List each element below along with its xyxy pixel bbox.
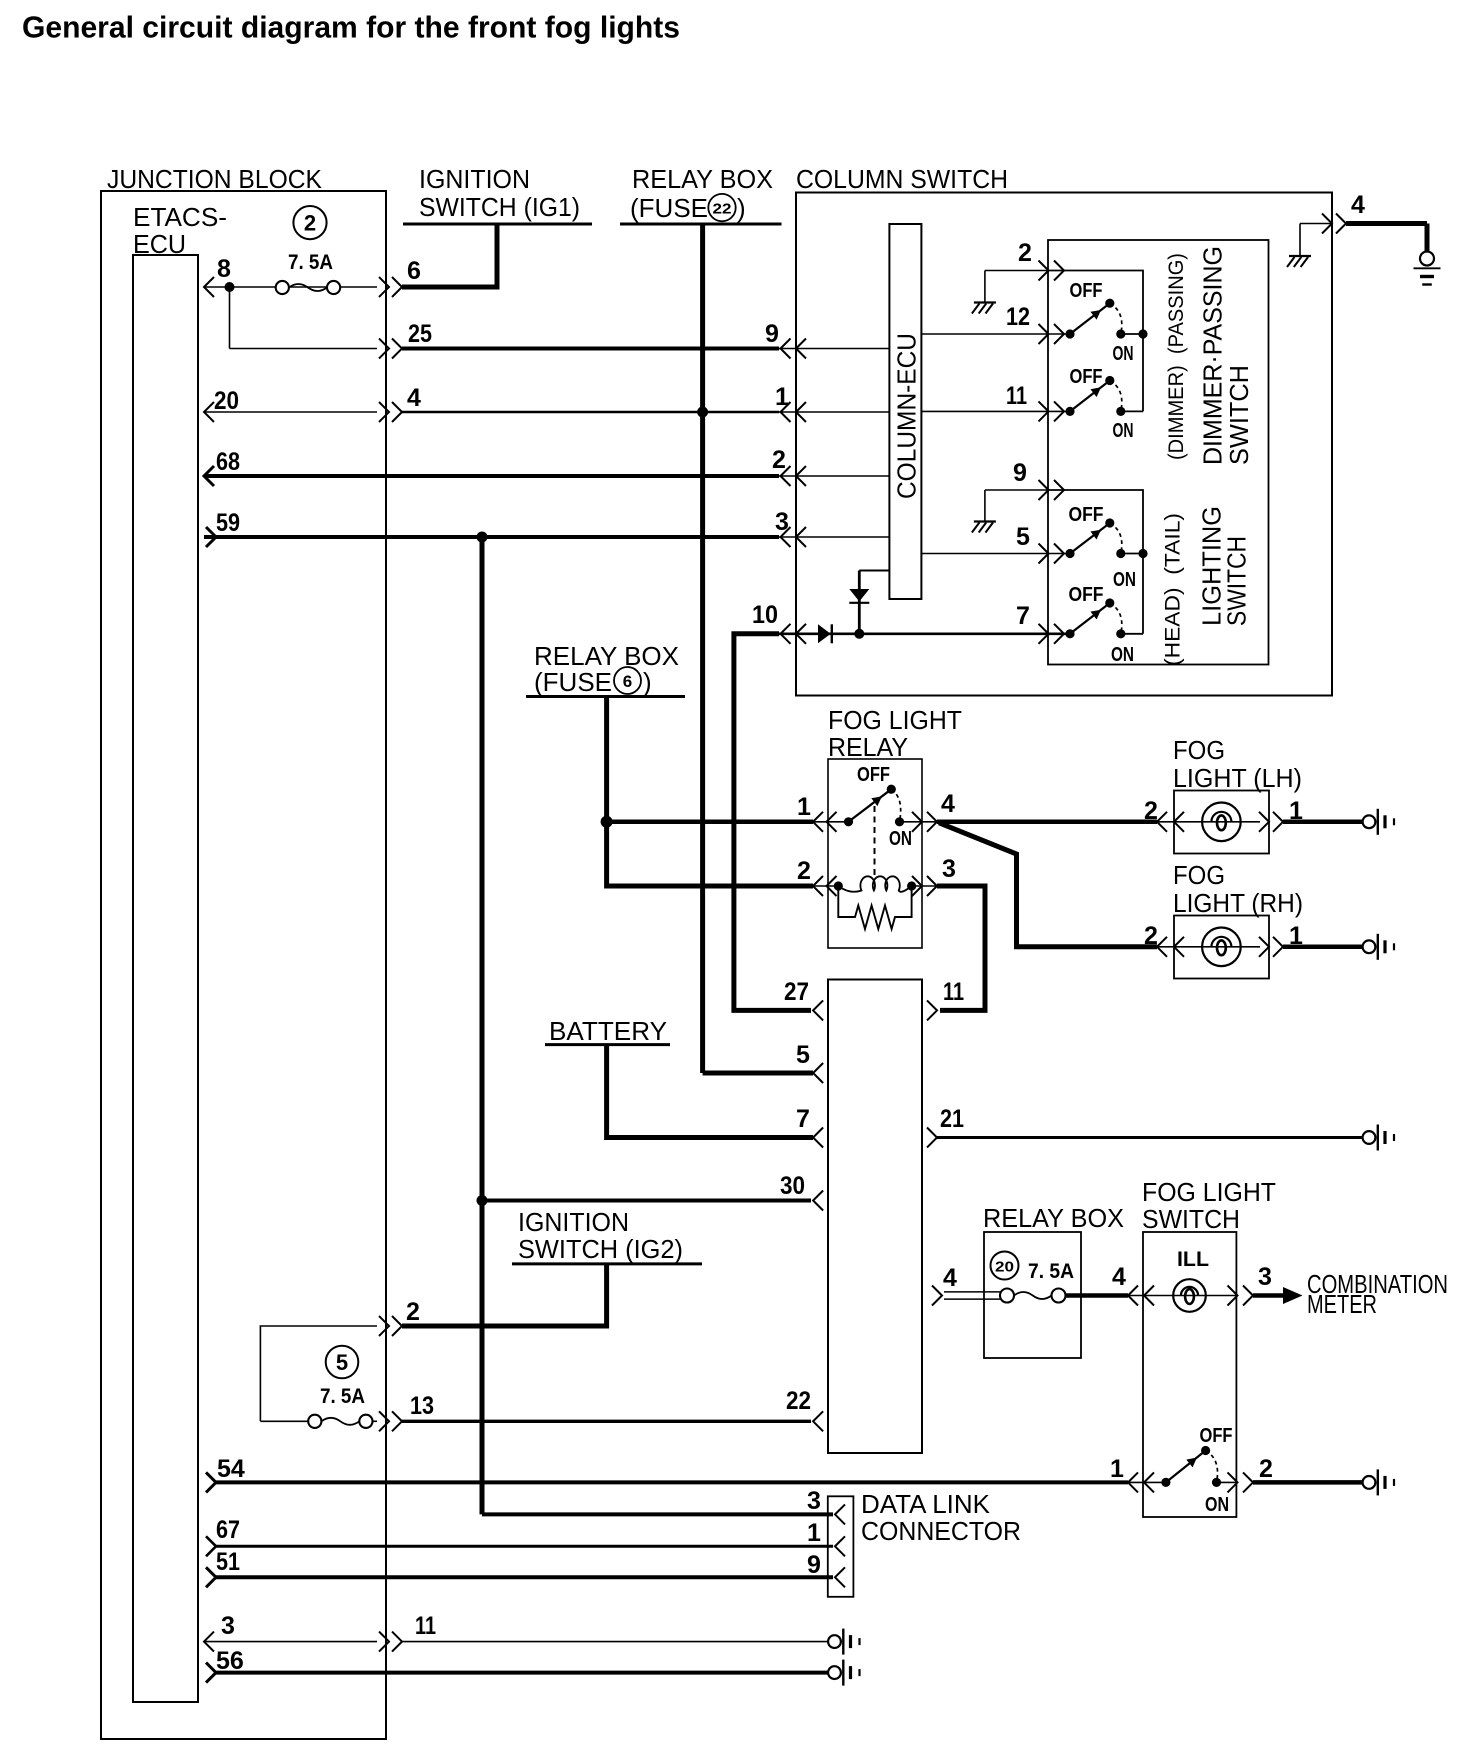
svg-text:RELAY BOX: RELAY BOX [983,1203,1124,1233]
pin 1 label row C [775,383,789,411]
fog light switch box [1143,1232,1236,1517]
pin 7 label tall [796,1105,810,1133]
fuse F5 rating label [320,1385,365,1408]
svg-text:7. 5A: 7. 5A [1028,1260,1074,1283]
data link pin 9 label [807,1551,821,1579]
svg-text:10: 10 [752,601,778,629]
relay switch [844,785,904,827]
label LIGHTING SWITCH [1197,506,1252,626]
column pin9 arrows [781,339,807,359]
fuse F20 circled 20 [991,1252,1019,1280]
svg-text:(FUSE: (FUSE [630,193,708,223]
earth ground pin11 [828,1629,859,1655]
wire fuse22 vertical [700,224,705,1073]
wire 59 to 3 [204,535,779,539]
pin 11 label inner [1006,382,1027,410]
pin 6 label [407,257,421,285]
pin 11 label tall [943,978,964,1006]
pin 21 label [940,1105,964,1133]
svg-text:SWITCH: SWITCH [1142,1204,1240,1234]
pin 3 label row E [775,508,789,536]
passing switch rail [1048,271,1143,412]
fog ECU box [828,980,922,1454]
dimmer switch OFF label [1070,366,1103,388]
fog switch pin4 arrows [1128,1286,1154,1306]
pin 56 arrow [206,1663,216,1683]
pin 22 label tall [786,1387,811,1415]
svg-text:OFF: OFF [1070,280,1103,302]
earth ground LH [1363,809,1394,835]
svg-text:2: 2 [797,857,811,885]
battery bar [545,1043,670,1046]
wire LH to ground [1283,820,1363,825]
pin 20 arrow [204,402,214,422]
svg-text:RELAY: RELAY [828,732,908,762]
COLUMN-ECU box [889,224,921,599]
svg-text:1: 1 [807,1519,821,1547]
relay box 20 label [983,1203,1124,1233]
combination meter arrow [1283,1287,1303,1304]
svg-text:METER: METER [1307,1289,1377,1319]
node row30 branch [477,1195,488,1206]
svg-text:3: 3 [221,1612,235,1640]
relay box 20 box [984,1232,1081,1358]
wire fsw inside right [1217,1481,1238,1483]
wire fsw pin2 to ground [1253,1480,1363,1485]
ECU pin7 arrow [813,1128,823,1148]
node row59 branch [477,532,488,543]
pin9 ground riser [984,490,986,521]
svg-text:ON: ON [1113,343,1134,365]
wire relay pin3 inside [912,885,937,887]
ignition switch IG1 label [419,164,580,222]
svg-text:OFF: OFF [1069,504,1104,526]
relay OFF label [857,764,890,786]
pin 67 label [216,1516,240,1544]
fog switch pin2 arrows [1228,1472,1254,1492]
diode D2 on pin10 wire [818,624,832,643]
ECU pin21 arrow [927,1128,937,1148]
wire relay pin1 inside [813,821,849,823]
svg-text:22: 22 [713,201,732,218]
rail stub pin5 [1121,549,1148,558]
svg-text:SWITCH (IG2): SWITCH (IG2) [518,1234,683,1264]
pin 9 label inner [1013,459,1027,487]
svg-text:9: 9 [765,320,779,348]
svg-text:4: 4 [941,790,955,818]
fuse F2 7.5A [276,281,341,294]
label DIMMER PASSING SWITCH [1198,246,1255,465]
svg-text:22: 22 [786,1387,811,1415]
relay pin 2 label [797,857,811,885]
svg-text:IGNITION: IGNITION [419,164,530,194]
svg-text:7. 5A: 7. 5A [288,251,333,274]
svg-text:ETACS-: ETACS- [133,202,227,232]
ECU pin11 arrow [927,1000,937,1020]
wire IG2 [402,1264,607,1326]
svg-text:OFF: OFF [1200,1425,1233,1447]
head switch OFF label [1069,584,1104,606]
wire pin2 [985,270,1048,272]
svg-text:3: 3 [807,1487,821,1515]
dimmer-lighting switch inner box [1048,240,1269,665]
pin 2 label row D [772,446,786,474]
pin10 arrows [781,624,807,644]
fuse F20 [1000,1289,1066,1303]
ECU pin5 arrow [813,1063,823,1083]
svg-text:OFF: OFF [857,764,890,786]
junction pin13 arrows [379,1411,402,1431]
fuse F5 circled 5 [326,1346,359,1379]
svg-text:FOG LIGHT: FOG LIGHT [828,705,962,735]
pin 30 label [780,1172,805,1200]
pin 3 bottom arrow [204,1632,214,1652]
ECU pin4 arrow [932,1286,942,1306]
fog light LH pin 1 label [1289,797,1303,825]
COLUMN-ECU label [892,333,922,499]
ignition switch IG1 bar [403,223,592,226]
fuse F5 housing [260,1326,377,1421]
dimmer switch ON label [1113,420,1134,442]
combination meter label [1307,1269,1448,1319]
svg-text:IGNITION: IGNITION [518,1207,629,1237]
ECU pin27 arrow [813,1000,823,1020]
pin 25 label [408,320,432,348]
rail stub pin12 [1121,329,1148,338]
svg-text:3: 3 [1258,1263,1272,1291]
svg-text:13: 13 [410,1392,434,1420]
earth ground pin4 [1414,252,1441,285]
data link connector box [828,1496,854,1597]
fog light RH pin1 arrows [1259,937,1283,957]
relay resistor [838,886,911,929]
fog light LH wire through [1157,821,1260,823]
wire pin1 inside [779,411,889,413]
fog switch pin1 arrows [1128,1472,1154,1492]
pin 5 label tall [796,1041,810,1069]
column switch label [796,164,1008,194]
fog light switch label [1142,1177,1276,1234]
svg-text:(HEAD) (TAIL): (HEAD) (TAIL) [1162,513,1185,666]
svg-text:ECU: ECU [133,229,186,259]
pin4 ground riser [1299,224,1301,256]
pin 59 label [216,509,240,537]
wire RH to ground [1283,945,1363,950]
switch tail [1065,518,1125,558]
wire pin9 inside [779,348,889,350]
svg-text:5: 5 [796,1041,810,1069]
pin 67 arrow [206,1536,216,1556]
svg-text:7: 7 [796,1105,810,1133]
fog light LH pin1 arrows [1259,812,1283,832]
wire fuse20 out [1066,1293,1129,1298]
junction pin4 arrows [379,402,402,422]
svg-text:(FUSE: (FUSE [534,667,612,697]
title [22,10,680,45]
column switch box [796,193,1332,696]
svg-text:RELAY BOX: RELAY BOX [632,164,773,194]
svg-text:DATA LINK: DATA LINK [861,1489,991,1519]
svg-text:ON: ON [1111,644,1134,666]
relay box fuse6 label [534,641,679,697]
svg-text:4: 4 [943,1264,957,1292]
wire pin3 inside [779,536,889,538]
svg-text:SWITCH (IG1): SWITCH (IG1) [419,192,580,222]
pin 3 bottom label [221,1612,235,1640]
pin 9 label [765,320,779,348]
label head tail rotated [1162,513,1185,666]
svg-text:General circuit diagram for th: General circuit diagram for the front fo… [22,10,680,45]
wire 13 to 22 [402,1420,811,1423]
pin2 arrows [1039,261,1065,281]
pin5 arrows [1039,544,1065,564]
pin 27 label [784,978,809,1006]
wire pin6 to IG1 [402,224,497,290]
svg-text:COLUMN-ECU: COLUMN-ECU [892,333,922,499]
relay pin2 arrows [813,876,837,896]
wire relay pin3 to pin11 [937,886,985,1010]
passing switch ON label [1113,343,1134,365]
wire fuse5 to junction [260,1420,377,1422]
svg-text:5: 5 [1016,523,1030,551]
svg-text:30: 30 [780,1172,805,1200]
passing switch OFF label [1070,280,1103,302]
svg-text:4: 4 [1351,191,1365,219]
head switch ON label [1111,644,1134,666]
node fuse22 tap [697,407,708,418]
switch passing [1065,299,1125,339]
pin7 arrows [1039,624,1065,644]
relay pin3 arrows [912,876,937,896]
svg-text:1: 1 [775,383,789,411]
svg-text:20: 20 [995,1259,1014,1276]
pin 3 label fsw [1258,1263,1272,1291]
svg-text:ON: ON [1205,1494,1229,1516]
ETACS-ECU box [133,255,198,1702]
svg-text:68: 68 [216,448,240,476]
pin 10 label [752,601,778,629]
lamp LH [1202,803,1241,842]
fuse F2 rating label [288,251,333,274]
wire pin2 inside [779,475,889,477]
switch dimmer [1065,376,1125,416]
earth ground fsw [1363,1469,1394,1495]
wire pin30 [482,1199,811,1203]
pin 8 label [217,255,231,283]
pin 11 bottom label [415,1612,436,1640]
ILL label [1177,1248,1209,1271]
fog switch OFF label [1200,1425,1233,1447]
svg-text:SWITCH: SWITCH [1222,536,1252,626]
pin4 arrows [1322,214,1346,234]
relay coil [834,876,917,891]
svg-text:9: 9 [1013,459,1027,487]
fog switch pin3 arrows [1228,1286,1254,1306]
wire pin4 thin [1300,223,1332,225]
svg-text:1: 1 [1110,1455,1124,1483]
svg-text:59: 59 [216,509,240,537]
relay armature dashed link [874,806,876,876]
pin 54 label [217,1455,245,1483]
svg-text:CONNECTOR: CONNECTOR [861,1516,1021,1546]
fog light RH wire through [1157,946,1260,948]
fuse F2 circled 2 [293,206,326,239]
pin 51 arrow [206,1567,216,1587]
svg-text:FOG: FOG [1173,735,1225,765]
svg-text:(DIMMER) (PASSING): (DIMMER) (PASSING) [1165,253,1188,460]
pin 68 label [216,448,240,476]
pin 4 label top [1351,191,1365,219]
relay pin 4 label [941,790,955,818]
wire 67 [216,1545,833,1548]
wire relay pin4 inside [900,821,938,823]
fog switch lever [1161,1446,1221,1487]
junction pin6 arrows [379,277,402,297]
svg-text:2: 2 [772,446,786,474]
fog light RH pin 2 label [1144,922,1158,950]
svg-text:ON: ON [1113,420,1134,442]
junction pin11 arrows [379,1632,402,1652]
pin 54 arrow [206,1472,216,1492]
pin9 arrows inner [1039,480,1065,500]
wire relay pin2 inside [813,885,838,887]
pin 59 arrow [206,527,216,547]
lighting switch rail [1048,490,1143,634]
pin 51 label [216,1548,240,1576]
pin 20 label [214,387,239,415]
fog light LH label [1173,735,1302,793]
lamp RH [1202,928,1241,967]
fog light LH pin2 arrows [1157,812,1184,832]
wire pin8 to fuse [204,286,377,288]
fog light RH pin 1 label [1289,922,1303,950]
svg-text:LIGHT (RH): LIGHT (RH) [1173,888,1303,918]
wire relay pin4 to LH [937,820,1157,825]
data link pin 1 label [807,1519,821,1547]
relay ON label [889,828,912,850]
wire pin3 to meter [1253,1293,1285,1298]
svg-text:1: 1 [797,793,811,821]
junction pin2 arrows IG2 [379,1316,402,1336]
label dimmer passing rotated [1165,253,1188,460]
svg-text:6: 6 [623,672,632,691]
svg-text:7. 5A: 7. 5A [320,1385,365,1408]
svg-text:20: 20 [214,387,239,415]
junction pin25 arrows [379,339,402,359]
wire pin20 [204,411,377,413]
tail switch ON label [1113,569,1136,591]
tail switch OFF label [1069,504,1104,526]
pin11 arrows [1039,401,1065,421]
data link pin9 arrow [835,1567,845,1587]
pin 2 label IG2 [406,1298,420,1326]
wire pin4 branch RH [939,823,1157,947]
wire relay pin1 [607,820,813,825]
svg-text:4: 4 [1112,1263,1126,1291]
fog light relay label [828,705,962,762]
wire fuse2 branch down [230,287,378,349]
svg-text:ON: ON [1113,569,1136,591]
node fuse2 input [225,282,235,292]
fuse F5 [308,1415,372,1428]
pin 12 label [1006,303,1030,331]
svg-text:2: 2 [1144,797,1158,825]
svg-text:11: 11 [415,1612,436,1640]
relay pin 3 label [942,855,956,883]
svg-text:5: 5 [336,1350,348,1375]
svg-text:3: 3 [942,855,956,883]
pin 2 label fsw [1259,1455,1273,1483]
pin2 ground riser [984,271,986,303]
svg-text:ILL: ILL [1177,1248,1209,1271]
rail stub pin11 [1121,410,1143,412]
svg-text:2: 2 [1144,922,1158,950]
wire pin3 bottom [204,1641,377,1643]
svg-text:DIMMER·PASSING: DIMMER·PASSING [1198,246,1228,465]
column pin1 arrows [781,402,807,422]
wire 51 [216,1575,833,1579]
earth ground pin56 [828,1660,859,1686]
svg-text:OFF: OFF [1069,584,1104,606]
diode D1 branch [849,571,889,634]
svg-text:ON: ON [889,828,912,850]
svg-text:4: 4 [407,384,421,412]
svg-text:8: 8 [217,255,231,283]
wire pin7 net [779,632,1070,635]
fog light RH box [1174,916,1269,979]
junction block box [101,191,386,1739]
wire fuse6 vertical [607,697,813,887]
pin 8 arrow [204,277,214,297]
wire pin21 to ground [937,1136,1363,1139]
wire 11 to ground [402,1641,828,1643]
svg-text:2: 2 [304,211,316,236]
svg-text:56: 56 [216,1647,244,1675]
wire 56 [216,1671,828,1675]
svg-text:LIGHT (LH): LIGHT (LH) [1173,763,1302,793]
wire pin9 feed [985,489,1048,491]
svg-text:SWITCH: SWITCH [1224,365,1254,465]
pin 4 label ecu [943,1264,957,1292]
relay box fuse6 bar [526,695,685,698]
fog light RH pin2 arrows [1157,937,1184,957]
pin 13 label [410,1392,434,1420]
fog switch ON label [1205,1494,1229,1516]
wire 54 [216,1480,1128,1484]
ignition switch IG2 bar [512,1262,702,1265]
svg-text:27: 27 [784,978,809,1006]
svg-text:67: 67 [216,1516,240,1544]
data link pin 3 label [807,1487,821,1515]
wire 25 to 9 [402,347,779,351]
svg-text:9: 9 [807,1551,821,1579]
relay box fuse22 bar [620,223,782,226]
data link pin3 arrow [835,1504,845,1524]
svg-text:54: 54 [217,1455,245,1483]
ECU pin30 arrow [813,1191,823,1211]
wire fsw inside left [1128,1481,1166,1483]
svg-text:FOG: FOG [1173,860,1225,890]
fog light relay box [828,759,922,948]
svg-text:): ) [737,193,746,223]
svg-text:FOG LIGHT: FOG LIGHT [1142,1177,1276,1207]
svg-text:25: 25 [408,320,432,348]
chassis ground pin2 [972,303,996,314]
wire battery [607,1045,813,1138]
wire 68 to 2 [204,474,779,478]
fog light RH label [1173,860,1303,918]
wire pin12 [922,333,1071,335]
